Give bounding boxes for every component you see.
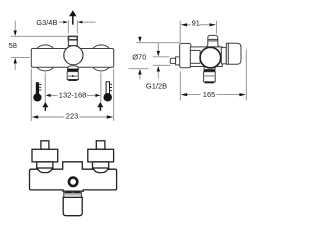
dimension 132-168 <box>45 73 101 111</box>
stub left <box>41 141 49 150</box>
arrow 165 right <box>239 93 246 96</box>
union nut right <box>88 149 114 162</box>
thermostat circle side <box>200 47 221 68</box>
arrow 165 left <box>181 93 188 96</box>
arrow O70 bottom <box>138 69 141 75</box>
dimension 58 <box>11 21 68 71</box>
main body illustration <box>30 162 117 191</box>
flow arrow inlet left <box>42 102 48 111</box>
top fitting side <box>206 35 219 47</box>
arrow O70 top <box>138 37 141 43</box>
fitting band <box>68 36 77 39</box>
outlet black band side <box>204 70 216 72</box>
thermostat circle front <box>64 46 83 65</box>
arrow 91 left <box>181 23 188 26</box>
outlet bottom band front <box>68 80 77 81</box>
arrow 58 up <box>14 58 17 64</box>
outlet gray band front <box>67 75 78 77</box>
outlet gray band side <box>204 75 216 76</box>
outlet dot front <box>72 75 74 77</box>
arrow 132-168 right <box>95 94 100 97</box>
outlet neck side <box>204 66 215 69</box>
svg-text:G1/2B: G1/2B <box>146 82 167 91</box>
svg-text:G3/4B: G3/4B <box>36 18 57 27</box>
knob side <box>226 43 241 64</box>
svg-text:223: 223 <box>66 112 79 121</box>
arrow 223 left <box>32 115 39 118</box>
svg-text:58: 58 <box>9 41 17 50</box>
collar left <box>37 162 53 168</box>
arrow 91 right <box>210 23 217 26</box>
aerator collar <box>64 193 82 198</box>
body tube side <box>190 47 222 67</box>
arrow G1/2 top <box>157 51 160 57</box>
dimension G3/4B <box>59 20 96 34</box>
arrow G1/2 bottom <box>157 66 160 72</box>
outlet ring <box>69 178 77 186</box>
dome left <box>38 167 52 173</box>
dimension 223 <box>31 69 113 122</box>
dimension 91 <box>180 21 216 43</box>
arrow 132-168 left <box>46 94 51 97</box>
flow arrow top outlet <box>69 10 76 24</box>
arrow 58 down <box>14 31 17 37</box>
dome right <box>94 167 108 173</box>
sleeve lines <box>190 49 200 51</box>
thread band right <box>74 191 81 193</box>
arrow G3/4B right-pointing <box>63 21 68 24</box>
outlet body front <box>67 72 78 80</box>
hump bottom left <box>37 67 54 71</box>
thread band left <box>65 191 72 193</box>
aerator cup <box>63 197 82 215</box>
flow arrow inlet right <box>97 102 103 111</box>
body front <box>31 49 113 68</box>
stub right <box>96 141 105 150</box>
svg-text:Ø70: Ø70 <box>132 53 146 62</box>
outlet dome front <box>67 66 78 69</box>
wall flange side <box>180 43 191 67</box>
inlet fitting G1/2 side <box>170 58 175 63</box>
thermometer hot icon <box>33 82 41 101</box>
svg-text:91: 91 <box>192 18 200 27</box>
hump bottom right <box>93 67 110 71</box>
knob neck side <box>221 48 226 64</box>
outlet black band front <box>67 69 78 72</box>
hump top left <box>37 45 54 49</box>
arrow G3/4B left-pointing <box>78 21 83 24</box>
dimension 165 <box>180 50 246 101</box>
union nut left <box>32 149 58 162</box>
outlet body side <box>204 72 216 82</box>
thermometer cold icon <box>103 82 112 102</box>
outlet bottom band side <box>205 82 215 84</box>
hump top right <box>93 45 110 49</box>
svg-text:165: 165 <box>203 90 216 99</box>
dimension O70 <box>129 36 180 79</box>
fitting G3/4 top <box>68 36 77 45</box>
svg-text:132-168: 132-168 <box>59 91 87 100</box>
arrow 223 right <box>107 115 114 118</box>
collar right <box>93 162 109 168</box>
aerator gray band <box>64 194 82 196</box>
